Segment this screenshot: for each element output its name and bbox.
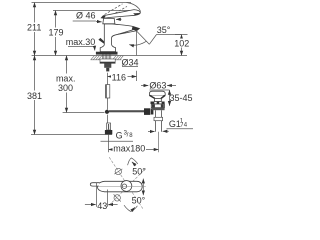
svg-text:50°: 50° bbox=[132, 167, 146, 177]
svg-text:4: 4 bbox=[184, 122, 188, 128]
svg-text:Ø 46: Ø 46 bbox=[76, 11, 96, 21]
svg-text:Ø63: Ø63 bbox=[149, 80, 166, 90]
svg-text:102: 102 bbox=[174, 38, 189, 48]
svg-text:116: 116 bbox=[112, 72, 126, 82]
svg-text:8: 8 bbox=[129, 133, 133, 139]
svg-text:300: 300 bbox=[58, 83, 73, 93]
svg-text:43: 43 bbox=[97, 201, 107, 211]
svg-text:35°: 35° bbox=[157, 25, 171, 35]
svg-text:max.30: max.30 bbox=[66, 37, 96, 47]
svg-text:50°: 50° bbox=[132, 195, 146, 205]
svg-text:381: 381 bbox=[27, 91, 42, 101]
svg-text:G: G bbox=[116, 130, 123, 140]
svg-text:/: / bbox=[127, 132, 129, 139]
svg-text:35-45: 35-45 bbox=[169, 93, 192, 103]
svg-text:Ø34: Ø34 bbox=[121, 57, 138, 67]
svg-text:211: 211 bbox=[27, 23, 41, 33]
svg-text:179: 179 bbox=[48, 28, 63, 38]
svg-text:max180: max180 bbox=[113, 144, 145, 154]
